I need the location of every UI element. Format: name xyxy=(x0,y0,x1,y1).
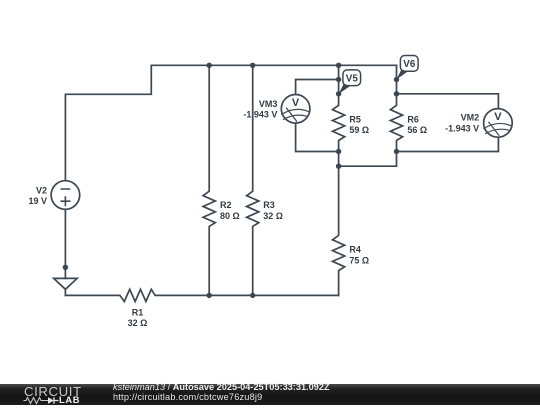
junction node top rail R5 xyxy=(336,63,341,68)
voltage source V2 xyxy=(51,181,80,210)
svg-text:VM3: VM3 xyxy=(259,99,278,109)
svg-text:R1: R1 xyxy=(132,307,144,317)
junction node top rail R2 xyxy=(207,63,212,68)
svg-text:R4: R4 xyxy=(349,245,361,255)
net flag V5 box xyxy=(343,70,361,86)
logo CIRCUIT xyxy=(24,385,82,398)
junction node jog/R4 xyxy=(336,164,341,169)
svg-text:32 Ω: 32 Ω xyxy=(128,318,148,328)
svg-text:80 Ω: 80 Ω xyxy=(220,211,240,221)
wire VM3 bottom lead xyxy=(296,123,339,151)
logo LAB xyxy=(59,396,80,405)
wire VM2 return xyxy=(397,137,499,151)
footer url line xyxy=(113,393,262,402)
footer credit line xyxy=(113,383,330,392)
wire VM2 top branch xyxy=(397,94,499,109)
junction node VM2 branch xyxy=(394,91,399,96)
junction node top rail R3 xyxy=(250,63,255,68)
voltmeter VM3 xyxy=(281,95,310,124)
svg-text:75 Ω: 75 Ω xyxy=(349,255,369,265)
net flag V6 pointer xyxy=(397,69,408,79)
resistor R6 xyxy=(390,65,402,151)
svg-text:32 Ω: 32 Ω xyxy=(263,211,283,221)
svg-text:V: V xyxy=(494,111,502,123)
wire V2 bottom to ground xyxy=(64,209,66,278)
node V5 xyxy=(336,91,341,96)
svg-text:V6: V6 xyxy=(403,59,416,70)
ground xyxy=(54,278,77,295)
wire V2 top to top rail xyxy=(65,65,396,180)
junction node R5 bottom xyxy=(336,149,341,154)
svg-text:56 Ω: 56 Ω xyxy=(407,125,427,135)
junction node VM3/R5 xyxy=(336,77,341,82)
wire VM3 top lead xyxy=(296,80,339,95)
logo resistor-diode glyph xyxy=(22,396,62,405)
net flag V5 pointer xyxy=(339,84,350,94)
voltmeter VM2 xyxy=(484,109,513,138)
junction node R6 bottom xyxy=(394,149,399,154)
svg-text:R2: R2 xyxy=(220,200,232,210)
svg-text:VM2: VM2 xyxy=(461,112,480,122)
resistor R4 xyxy=(333,166,345,295)
svg-text:V: V xyxy=(292,97,300,109)
svg-text:R3: R3 xyxy=(263,200,275,210)
svg-text:59 Ω: 59 Ω xyxy=(349,125,369,135)
footer bar xyxy=(0,384,540,405)
svg-text:R6: R6 xyxy=(407,114,419,124)
wire jog between R5 and R6 bottoms xyxy=(339,152,397,167)
junction node bottom rail R2 xyxy=(207,293,212,298)
svg-text:-1.943 V: -1.943 V xyxy=(445,124,479,134)
resistor R3 xyxy=(247,65,259,295)
net flag V6 box xyxy=(400,56,418,72)
resistor R5 xyxy=(333,65,345,151)
junction node ground xyxy=(63,265,68,270)
svg-text:V2: V2 xyxy=(36,186,47,196)
svg-text:-1.943 V: -1.943 V xyxy=(243,110,277,120)
junction node bottom rail R3 xyxy=(250,293,255,298)
resistor R2 xyxy=(203,65,215,295)
svg-text:V5: V5 xyxy=(346,73,359,84)
svg-text:19 V: 19 V xyxy=(28,196,47,206)
bottom rail with resistor R1 xyxy=(65,289,338,301)
svg-text:R5: R5 xyxy=(349,114,361,124)
node V6 xyxy=(394,77,399,82)
